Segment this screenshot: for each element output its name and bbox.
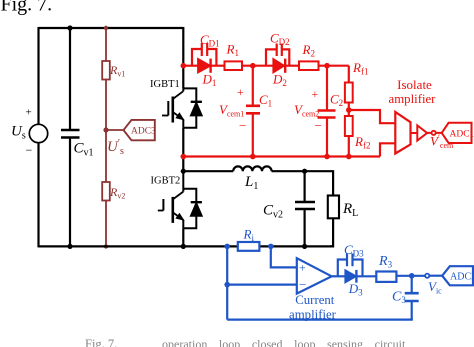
svg-text:Vcem1: Vcem1 [219,102,244,119]
node divider top [104,26,108,30]
node divider mid tap [103,127,108,132]
ADC3 tag [124,120,155,140]
svg-text:+: + [237,85,244,99]
resistor R_v1 [102,61,110,80]
wire C_v1 branch upper [69,28,71,130]
svg-text:Isolate: Isolate [397,77,432,92]
diode D2 [273,59,284,73]
svg-text:Current: Current [295,293,335,307]
node red tap collector2 [181,63,187,69]
wire C_v2 lower [304,209,306,246]
op-amp isolate amplifier (trapezoid) [395,112,410,154]
source U_s circle [29,124,47,142]
svg-text:ADC3: ADC3 [131,126,156,136]
wire red bottom rail [183,155,380,157]
node blue right tap [268,244,274,250]
svg-text:−: − [239,118,246,133]
svg-text:CD3: CD3 [344,242,364,258]
wire R1 to C1 node [242,65,273,67]
svg-text:IGBT1: IGBT1 [150,79,180,90]
inductor L1 [233,166,271,171]
capacitor C_D2 bridge [266,49,289,65]
resistor Rf1 [345,83,353,103]
node C_v2 bottom [302,244,307,249]
svg-text:IGBT2: IGBT2 [151,176,181,187]
wire C1 upper [252,66,254,106]
svg-text:+: + [26,107,32,119]
svg-text:Fig. 7.: Fig. 7. [85,337,117,347]
svg-text:−: − [299,277,306,292]
transistor IGBT1 [162,88,202,127]
node red rail C2 [324,154,330,160]
wire mid to L1 [183,170,233,172]
wire L1 to RL corner [272,170,334,172]
wire amp upper input [349,110,396,123]
wire opamp out [332,275,346,277]
ADC1 tag [442,123,472,143]
node red rail Rf2 [346,154,352,160]
node C1 top [250,63,256,69]
node top rail C_v1 [67,25,72,30]
wire IGBT leg top [182,27,184,88]
svg-text:Rf2: Rf2 [354,134,370,151]
svg-text:R2: R2 [302,42,315,59]
svg-text:ADC1: ADC1 [450,129,474,139]
svg-text:Cv2: Cv2 [263,203,283,221]
wire amp lower input [380,143,395,156]
capacitor C1 [246,106,260,114]
svg-text:Fig. 7.: Fig. 7. [1,0,53,16]
svg-text:U′s: U′s [107,138,124,157]
svg-text:ADC2: ADC2 [450,271,474,282]
wire minus input [227,284,297,286]
node red tap emitter1 [181,154,187,160]
node red rail C1 [250,154,256,160]
svg-text:Cv1: Cv1 [74,141,94,159]
wire plus input [271,246,297,267]
wire circle to ADC2 [429,275,442,277]
wire divider lower (maroon) [105,201,107,247]
transistor IGBT2 [158,171,202,228]
wire IGBT2 emitter to bottom rail [182,228,184,246]
capacitor C2 [318,111,336,118]
capacitor C_v1 [61,130,80,138]
svg-text:−: − [315,118,322,133]
diode D3 [345,270,356,283]
svg-text:−: − [26,143,33,157]
wire divider middle (maroon) [105,80,107,183]
node open circle Vic [425,274,429,278]
node mid leg [181,169,186,174]
node divider bottom [104,244,108,248]
wire R2 to corner [319,65,349,67]
wire R3 to C3 node [396,275,425,277]
svg-text:amplifier: amplifier [289,308,337,322]
op-amp current amplifier [297,258,332,293]
svg-text:Rf1: Rf1 [352,60,368,77]
svg-text:CD1: CD1 [200,32,220,49]
capacitor C_v2 [295,202,315,209]
svg-text:C2: C2 [330,92,343,109]
wire divider upper (maroon) [105,28,107,61]
buffer triangle [417,125,427,140]
svg-text:C3: C3 [392,290,406,306]
wire Rf1 drop [348,66,350,83]
resistor R2 [299,61,319,70]
svg-text:R1: R1 [226,42,239,59]
svg-text:RL: RL [342,201,358,219]
wire trapezoid to triangle [411,132,418,134]
node output circle [432,131,436,135]
svg-text:Us: Us [11,124,26,142]
wire circle to ADC1 [427,132,442,134]
svg-text:Vic: Vic [428,279,442,296]
wire red rail D1 segment [183,65,198,67]
node C2 top [324,63,330,69]
wire D3 to R3 [356,275,375,277]
node minus branch [224,282,230,288]
wire C_v2 upper [304,171,306,202]
wire C2 lower [326,118,328,157]
wire IGBT1 emitter to mid node [182,128,184,172]
resistor R_L [328,196,339,219]
svg-text:+: + [312,87,319,101]
wire C2 upper [326,66,328,111]
capacitor C_D1 bridge [192,49,216,66]
svg-text:D1: D1 [202,72,217,89]
svg-text:D2: D2 [272,72,287,89]
wire ADC3 tap [106,129,124,131]
node bottom rail IGBT leg [181,244,186,249]
capacitor C3 [405,293,419,301]
resistor R1 [225,61,243,70]
svg-text:D3: D3 [348,281,363,298]
wire Rf2 to red bottom rail [348,136,350,157]
wire C3 upper [411,276,413,293]
node bottom rail C_v1 [67,244,72,249]
wire R_L lower [330,218,333,246]
resistor Ri [238,242,260,251]
svg-text:Rv2: Rv2 [109,185,125,201]
wire left sense drop [226,246,228,319]
svg-text:amplifier: amplifier [389,92,437,106]
ADC2 tag [442,266,473,285]
svg-text:operation loop closed loop sen: operation loop closed loop sensing circu… [162,337,406,347]
svg-text:CD2: CD2 [270,31,290,48]
svg-text:L1: L1 [244,174,258,192]
wire R_L upper [332,170,334,195]
wire C_v1 branch lower [69,138,71,247]
node C_v2 top [302,169,307,174]
svg-text:Rv1: Rv1 [109,63,125,79]
capacitor C_D3 bridge [338,260,363,277]
svg-text:C1: C1 [259,92,272,109]
wire C1 lower [252,113,254,156]
resistor R3 [376,272,396,282]
svg-text:Vcem2: Vcem2 [294,102,319,119]
wire top rail [39,27,184,29]
svg-text:R3: R3 [378,254,393,270]
wire blue bottom rail [227,318,412,320]
wire left rail upper [37,27,39,125]
wire left rail lower [37,143,39,248]
wire bottom rail [39,245,334,247]
wire D1 to R1 [211,65,225,67]
node blue left tap [224,244,230,250]
node C3 top [409,273,415,279]
diode D1 [198,59,211,73]
wire Rf1 to node [348,103,350,117]
wire D2 to R2 [285,65,299,67]
node Rf divider [346,107,352,113]
resistor Rf2 [345,116,353,136]
svg-text:Ri: Ri [243,227,255,244]
resistor R_v2 [102,182,110,201]
wire C3 lower [411,301,413,320]
svg-text:+: + [299,261,306,275]
